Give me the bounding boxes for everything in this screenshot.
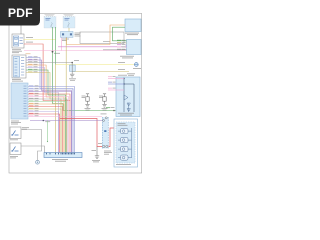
- connector C1: [61, 32, 81, 41]
- panel2 row pink: [108, 75, 112, 78]
- wire box B row green: [28, 68, 33, 71]
- wire master switch row 1 blue: [29, 84, 34, 87]
- wire master switch row 4 red: [29, 92, 34, 95]
- wire master switch row 8 orange: [29, 102, 34, 105]
- pink wire from connector going left-down then right: [62, 38, 127, 51]
- tan drop from fuse box 2 to connector: [68, 28, 70, 32]
- splice dot S1: [52, 51, 54, 53]
- wire box B row lavender: [28, 65, 33, 68]
- green wire label and inline connector: [106, 106, 110, 109]
- wire master switch row 2 blue2: [29, 87, 34, 90]
- magenta wire to panel1: [58, 46, 127, 48]
- orange riser to top-right box: [110, 25, 125, 45]
- green branch to top-right box and panel1: [113, 27, 127, 41]
- diode/ground component at x=87.5: [82, 94, 91, 111]
- wire box B row tan: [28, 70, 33, 73]
- splice + ground G401: [96, 147, 98, 156]
- gray stub into panel1: [103, 49, 127, 51]
- light green wire to splice: [47, 121, 49, 142]
- wire master switch row 10 tan: [29, 107, 34, 110]
- wire box B row purple: [28, 58, 33, 61]
- wire box D to bar: [21, 146, 45, 153]
- wire master switch row 12 red: [29, 112, 34, 115]
- bottom connector bar: [44, 153, 82, 162]
- diagram frame: [9, 14, 142, 174]
- panel1 row gray: [117, 48, 121, 51]
- box A left connector: [12, 34, 24, 53]
- panel1 row tan: [117, 41, 121, 44]
- wire box C to bar: [21, 130, 42, 161]
- ground G304: [70, 73, 74, 75]
- PDF badge: [0, 0, 40, 26]
- top-right module box: [125, 19, 141, 35]
- wire from badge into box A: [20, 26, 22, 35]
- green wire 1 (fuse to splice to window): [53, 27, 117, 111]
- ground ring under bar: [36, 160, 40, 164]
- wire master switch row 6 gray: [29, 97, 34, 100]
- right yellow end connector symbol: [133, 63, 141, 69]
- panel1 row magenta: [117, 43, 121, 46]
- wire master switch row 7 ltgreen: [29, 99, 34, 102]
- right panel 2 window motor module: [116, 75, 140, 117]
- yellow/tan vertical to bottom bar: [55, 65, 57, 153]
- green wire 2 (fuse to yellow junction): [55, 27, 57, 65]
- inline fuse box: [69, 65, 75, 71]
- small warm label near box B top: [26, 52, 31, 55]
- master switch connector panel: [11, 83, 28, 124]
- wire box B row orange: [28, 63, 33, 66]
- tan wire long: [72, 71, 129, 73]
- gray wire box B to inline fuse and ground G304: [28, 60, 33, 63]
- purple wire long to strip: [30, 120, 104, 122]
- tan wire from connector descending to bottom bar: [65, 38, 67, 153]
- diode/ground component at x=104.5: [99, 94, 108, 111]
- panel1 row pink: [117, 46, 121, 49]
- wire box B row blue: [28, 55, 33, 58]
- red hook wire to panel3 via jamb connector: [60, 119, 114, 147]
- wire master switch row 9 red: [29, 104, 34, 107]
- wire master switch row 5 pink: [29, 94, 34, 97]
- door jamb pass-through strip: [101, 114, 113, 155]
- gray module rectangle: [80, 32, 124, 44]
- wire master switch row 3 purple: [29, 89, 34, 92]
- fuse box F2: [63, 14, 75, 28]
- panel2 row blue: [108, 81, 112, 84]
- yellow wire from box A: [24, 39, 56, 41]
- wire master switch row 13 pink to door strip: [29, 114, 34, 117]
- right panel 1 (switch): [127, 40, 142, 55]
- wire master switch row 11 lavender: [29, 109, 34, 112]
- orange wire connector to right riser: [67, 38, 111, 45]
- panel1 row green: [117, 39, 121, 42]
- svg-text:PDF: PDF: [8, 6, 33, 20]
- switch box C: [10, 127, 29, 140]
- fuse box F1 (interior fuse block): [44, 14, 56, 28]
- panel2 row pink: [108, 87, 112, 90]
- switch box D: [10, 143, 21, 158]
- red wire from box A: [24, 44, 70, 153]
- splice dot on purple: [43, 120, 45, 122]
- panel 3 motor assembly: [114, 119, 138, 167]
- box B connector: [12, 55, 26, 82]
- yellow wire long to right connector: [56, 64, 135, 66]
